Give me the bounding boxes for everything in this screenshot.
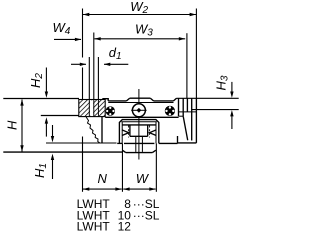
d1 left arrowhead xyxy=(80,63,86,66)
H2 upper arrowhead xyxy=(45,92,48,98)
rail slot bottom xyxy=(130,135,148,137)
H1 lower arrowhead xyxy=(51,154,54,160)
W3 right arrowhead xyxy=(179,37,185,40)
H1 upper arrow tail xyxy=(52,125,54,137)
W2 right extension line xyxy=(195,9,197,99)
rail slot left wall xyxy=(129,125,131,136)
step chamfer up xyxy=(174,98,177,101)
N right / W left extension line xyxy=(121,143,123,191)
boss chamfer left xyxy=(127,98,130,101)
d1 dimension line left tail xyxy=(71,63,86,65)
left ball groove vee xyxy=(122,130,129,136)
centerline xyxy=(138,89,140,160)
H1 extension tick line xyxy=(46,142,117,144)
plate top mid-left xyxy=(108,100,126,102)
tongue break line zigzag xyxy=(86,117,100,143)
carriage cavity left wall xyxy=(121,122,123,143)
left hidden dash line xyxy=(128,126,130,138)
table left wall bottom line xyxy=(41,115,79,117)
N left extension line xyxy=(82,137,84,192)
carriage top inner seam xyxy=(121,121,156,123)
W2 left extension line xyxy=(82,9,84,58)
right hidden dash line xyxy=(149,126,151,138)
svg-text:d1: d1 xyxy=(109,45,122,62)
W left arrowhead xyxy=(123,187,129,190)
H3 lower arrowhead xyxy=(230,110,233,116)
W3 dimension line xyxy=(94,38,185,40)
boss top xyxy=(130,97,151,99)
right flange bottom line B xyxy=(192,109,239,111)
carriage bottom right chamfer xyxy=(152,150,156,152)
W3 left extension line xyxy=(93,33,95,100)
plate bottom line xyxy=(105,116,178,118)
carriage left wing bottom xyxy=(117,142,122,144)
carriage bottom left chamfer xyxy=(122,150,125,152)
rail web left line xyxy=(135,136,137,152)
d1 left extension line xyxy=(88,57,90,99)
H2 lower arrowhead xyxy=(45,117,48,123)
H1 lower arrow tail xyxy=(52,158,54,179)
svg-text:H3: H3 xyxy=(214,75,231,90)
N dimension line xyxy=(83,188,122,190)
plate top mid-right xyxy=(154,100,174,102)
H1 upper arrowhead xyxy=(51,136,54,142)
svg-text:W: W xyxy=(136,171,150,186)
H bottom arrowhead xyxy=(20,145,23,151)
H top arrowhead xyxy=(20,99,23,105)
H2 lower arrow tail xyxy=(45,123,47,137)
d1 right extension line xyxy=(97,57,99,99)
W dimension line xyxy=(123,188,155,190)
wall inner bottom short xyxy=(179,115,184,117)
tongue right edge xyxy=(101,117,103,143)
svg-text:H: H xyxy=(5,120,20,130)
wall foot left edge xyxy=(177,136,179,143)
H dimension line xyxy=(21,100,23,152)
W4 dimension line tail xyxy=(54,38,81,40)
svg-text:H2: H2 xyxy=(28,73,45,88)
carriage cavity right wall xyxy=(155,122,157,143)
carriage outer outline xyxy=(119,120,158,144)
svg-text:N: N xyxy=(98,171,108,186)
right flange top line A xyxy=(177,97,239,99)
rail slot right wall xyxy=(147,125,149,136)
wall vertical 2 xyxy=(182,98,184,116)
W2 left arrowhead xyxy=(83,13,89,16)
wall vertical 1 xyxy=(178,98,180,116)
ledge line carriage to foot xyxy=(159,142,178,144)
H2 upper arrow tail xyxy=(45,68,47,94)
rail top line xyxy=(122,124,156,126)
wall foot bottom xyxy=(178,142,197,144)
W3 left arrowhead xyxy=(94,37,100,40)
rail web right line xyxy=(141,136,143,152)
W2 dimension line xyxy=(83,14,196,16)
svg-text:12: 12 xyxy=(118,219,132,233)
N left arrowhead xyxy=(83,187,89,190)
carriage bottom line xyxy=(126,152,153,154)
svg-text:···SL: ···SL xyxy=(133,208,160,222)
W3 right extension line xyxy=(186,33,188,98)
W4 arrowhead xyxy=(75,38,81,41)
W right extension line xyxy=(155,143,157,191)
H3 lower arrow tail xyxy=(231,115,233,129)
wall vertical 4 xyxy=(191,98,193,140)
rail shoulder line xyxy=(124,142,154,144)
d1 dimension line right tail xyxy=(104,63,128,65)
wall outer edge xyxy=(195,98,197,143)
W2 right arrowhead xyxy=(190,13,196,16)
wall inner slant xyxy=(183,116,188,140)
svg-text:W4: W4 xyxy=(53,20,71,37)
plate recess second line xyxy=(108,102,173,104)
bed top line xyxy=(3,151,122,153)
svg-text:LWHT: LWHT xyxy=(77,219,111,233)
small boss near hatch block xyxy=(103,99,108,101)
svg-text:H1: H1 xyxy=(32,163,49,178)
wall vertical 3 xyxy=(186,98,188,112)
svg-text:W3: W3 xyxy=(135,21,153,38)
H3 upper arrow tail xyxy=(231,82,233,93)
boss chamfer right xyxy=(150,98,153,101)
d1 right arrowhead xyxy=(104,63,110,66)
H3 upper arrowhead xyxy=(230,92,233,98)
N right arrowhead xyxy=(115,187,121,190)
svg-text:W2: W2 xyxy=(130,0,148,16)
wall cross line xyxy=(179,111,197,113)
W right arrowhead xyxy=(149,187,155,190)
table top surface left xyxy=(3,98,79,100)
right ball groove vee xyxy=(150,130,157,136)
